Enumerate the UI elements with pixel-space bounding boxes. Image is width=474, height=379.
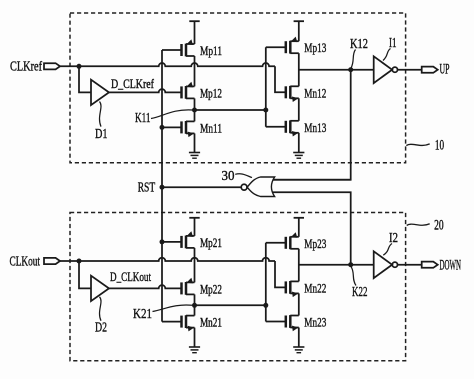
svg-text:CLKout: CLKout: [10, 255, 41, 270]
transistor Mp11: [182, 39, 195, 56]
wire CLKref to node: [60, 65, 79, 67]
wire NOR top input from K12: [273, 179, 351, 181]
wire gate bus to Mn13 gate: [266, 126, 286, 128]
node K22: [348, 262, 353, 267]
power VDD right top: [294, 21, 304, 41]
svg-text:Mn21: Mn21: [200, 315, 222, 330]
node CLKref junction: [77, 64, 82, 69]
wire K22 line to inverter I2: [299, 264, 374, 266]
svg-text:Mp11: Mp11: [200, 43, 222, 58]
svg-text:I1: I1: [389, 36, 397, 51]
svg-text:Mp22: Mp22: [200, 281, 222, 296]
wire Mp21 drain to Mp22 source: [194, 248, 196, 283]
svg-text:Mn13: Mn13: [304, 120, 326, 135]
svg-text:K22: K22: [352, 285, 368, 300]
wire CLKout to node: [60, 260, 79, 262]
wire gate bus to Mn23 gate: [266, 321, 286, 323]
wire Mp23 drain to Mn22 drain through K22 tee: [298, 249, 300, 282]
wire gate bus to Mp13 gate: [266, 46, 286, 48]
label D1 with leader: [100, 102, 102, 127]
wire jog down to Mn22 gate: [275, 261, 286, 287]
transistor Mp22: [182, 278, 195, 295]
node K21 net on gate bus: [263, 303, 268, 308]
svg-text:Mp23: Mp23: [304, 236, 326, 251]
transistor Mn12: [286, 86, 299, 102]
svg-text:Mn23: Mn23: [304, 315, 326, 330]
svg-text:Mn22: Mn22: [304, 280, 326, 295]
node CLKout junction: [77, 259, 82, 264]
label D2 with leader: [100, 297, 102, 321]
svg-text:Mp21: Mp21: [200, 235, 222, 250]
svg-text:10: 10: [435, 138, 444, 154]
wire Mp11 drain to Mp12 source: [194, 56, 196, 86]
transistor Mn22: [286, 281, 299, 297]
label I1 with leader: [383, 49, 391, 61]
label K21 with leader: [153, 305, 193, 312]
wire node to D2 input: [79, 261, 91, 288]
buffer D2: [91, 276, 109, 301]
label K12 with leader: [351, 50, 356, 69]
node Mn11 gate junction: [160, 125, 165, 130]
svg-text:Mn11: Mn11: [200, 120, 222, 135]
wire K21 to right gate bus: [195, 304, 266, 306]
buffer D1: [91, 80, 109, 105]
dashed box 20 (lower PFD half): [70, 213, 406, 361]
wire RST to Mp11 gate: [162, 49, 182, 51]
svg-text:30: 30: [222, 169, 235, 184]
svg-text:Mn12: Mn12: [304, 85, 326, 100]
svg-text:RST: RST: [138, 180, 156, 195]
ground below Mn23: [293, 328, 304, 353]
node K12: [348, 67, 353, 72]
wire Mn22 source to Mn23 drain: [298, 293, 300, 315]
svg-text:D_CLKout: D_CLKout: [110, 269, 151, 284]
right gate bus (K11 net): [265, 47, 267, 127]
output terminal DOWN: [422, 262, 438, 268]
wire RST to Mn21 gate: [162, 321, 182, 323]
wire Mp22 drain to K21 node to Mn21 drain: [194, 294, 196, 315]
output terminal UP: [422, 67, 438, 73]
svg-text:CLKref: CLKref: [10, 60, 42, 75]
svg-text:Mp13: Mp13: [304, 40, 326, 55]
svg-text:D_CLKref: D_CLKref: [111, 76, 155, 91]
wire RST to Mn11 gate: [162, 126, 182, 128]
transistor Mp21: [182, 231, 195, 248]
node K11: [192, 108, 197, 113]
label 10 with squiggle leader: [406, 144, 429, 146]
wire RST to Mp21 gate: [162, 241, 182, 243]
inverter I2: [374, 251, 398, 278]
transistor Mp12: [182, 82, 195, 99]
svg-text:Mp12: Mp12: [200, 85, 222, 100]
power VDD left top: [189, 21, 199, 44]
node RST junction: [160, 185, 165, 190]
wire I1 to UP terminal: [398, 69, 422, 71]
svg-text:K21: K21: [133, 307, 152, 322]
wire D1 output to Mp12 gate (hop over RST): [109, 89, 182, 92]
svg-text:DOWN: DOWN: [440, 258, 462, 274]
node K21: [192, 303, 197, 308]
wire D2 output to Mp22 gate (hop over RST): [109, 285, 182, 288]
label 30 with leader: [235, 174, 252, 178]
wire CLKref line with hops to Mn12 gate jog: [79, 63, 275, 66]
ground below Mn11: [189, 133, 200, 158]
label 20 with squiggle leader: [407, 224, 430, 226]
svg-text:I2: I2: [389, 231, 398, 246]
svg-text:UP: UP: [440, 62, 450, 78]
right gate bus (K21 net): [265, 243, 267, 322]
wire I2 to DOWN terminal: [398, 264, 422, 266]
wire K12 down to NOR input: [274, 70, 351, 180]
svg-text:K12: K12: [350, 37, 368, 52]
RST vertical bus: [161, 50, 163, 322]
wire CLKout line with hops to Mn22 gate jog: [79, 258, 275, 261]
svg-text:D1: D1: [95, 127, 108, 142]
wire node to D1 input: [79, 66, 91, 92]
label I2 with leader: [383, 244, 392, 256]
wire Mn12 source to Mn13 drain: [298, 98, 300, 121]
svg-text:20: 20: [434, 218, 444, 234]
wire K12 line to inverter I1: [299, 69, 374, 71]
node Mp21 gate junction: [160, 239, 165, 244]
label K22 with leader: [351, 267, 356, 286]
power VDD left bottom: [189, 218, 199, 236]
wire NOR bottom input from K22: [273, 192, 351, 264]
ground below Mn13: [293, 133, 304, 158]
NOR gate 30: [241, 177, 274, 197]
transistor Mp13: [286, 37, 299, 54]
transistor Mn11: [182, 121, 195, 137]
transistor Mn23: [286, 315, 299, 331]
wire K11 to right gate bus: [195, 109, 266, 111]
wire jog down to Mn12 gate: [275, 66, 286, 92]
wire Mp13 drain to Mn12 drain through K12 tee: [298, 53, 300, 86]
inverter I1: [374, 56, 398, 83]
label K11 with leader: [151, 110, 193, 119]
svg-text:K11: K11: [135, 111, 151, 126]
wire NOR output to RST node: [162, 186, 241, 188]
svg-text:D2: D2: [95, 321, 107, 336]
transistor Mn21: [182, 315, 195, 331]
wire gate bus to Mp23 gate: [266, 242, 286, 244]
transistor Mp23: [286, 232, 299, 249]
power VDD right bottom: [294, 218, 304, 237]
node K11 net on gate bus: [263, 108, 268, 113]
dashed box 10 (upper PFD half): [70, 13, 406, 163]
transistor Mn13: [286, 120, 299, 136]
ground below Mn21: [189, 328, 200, 353]
wire Mp12 drain to K11 node to Mn11 drain: [194, 98, 196, 121]
